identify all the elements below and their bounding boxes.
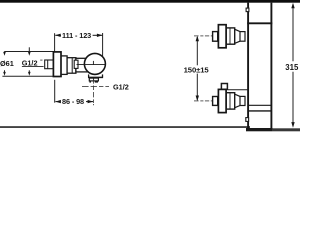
bottom union taper	[235, 94, 240, 108]
dimension 315 line	[291, 3, 294, 128]
dim Ø61 arrow bottom-left	[3, 72, 6, 76]
top knob tab	[246, 8, 249, 12]
outlet vertical centerline	[93, 80, 95, 105]
outlet horizontal centerline	[82, 86, 109, 88]
outlet nut lower marks	[89, 81, 91, 83]
svg-text:315: 315	[285, 63, 299, 72]
connector division line	[71, 58, 73, 73]
svg-text:86 - 98: 86 - 98	[62, 97, 84, 106]
body/knob mid line	[77, 64, 106, 66]
bottom union stub box	[221, 84, 227, 90]
knob division top	[247, 22, 272, 24]
dimension line 86-98 with arrows	[55, 100, 93, 103]
dim Ø61 stub above	[28, 47, 30, 52]
top union body division	[229, 28, 231, 44]
top union escutcheon	[218, 25, 226, 48]
svg-text:111 - 123: 111 - 123	[62, 31, 91, 40]
dim Ø61 arrow bottom-mid	[28, 72, 31, 76]
dim Ø61 stub bottom-left	[4, 70, 6, 72]
leader line bottom (escutcheon bottom edge)	[2, 75, 53, 77]
bottom frame line	[0, 126, 250, 128]
top union nut	[213, 32, 218, 42]
knob center tick	[92, 61, 94, 65]
bottom union cylinder	[240, 96, 245, 105]
outlet collar left edge	[88, 74, 90, 77]
leader line top (escutcheon top edge)	[4, 51, 54, 53]
bottom union escutcheon	[218, 89, 226, 112]
label G1/2 underline	[22, 66, 44, 68]
bar bottom cap fade right	[273, 128, 300, 131]
svg-text:Ø61: Ø61	[0, 59, 14, 68]
dim Ø61 arrow top-mid	[28, 52, 31, 56]
svg-text:G1/2: G1/2	[113, 82, 129, 91]
dimension 86-98 extension line	[54, 80, 56, 103]
dimension line 111-123 with arrows	[55, 34, 102, 37]
bottom union body	[226, 93, 234, 109]
bar left edge	[247, 3, 249, 129]
bottom union body division	[229, 93, 231, 109]
connector step 1	[61, 56, 67, 75]
bottom union stub line	[227, 89, 248, 91]
bar right edge	[270, 3, 272, 129]
inlet pipe	[45, 60, 54, 69]
outlet nut split	[93, 78, 95, 81]
knob division bottom 2	[249, 110, 271, 112]
top union cylinder	[240, 32, 245, 42]
temperature stop button	[74, 60, 78, 68]
dimension 111-123 extension line left	[54, 33, 56, 51]
outlet collar right edge	[102, 74, 104, 77]
bar bottom cap	[246, 128, 273, 131]
dimension 150±15 line	[196, 36, 199, 101]
dim Ø61 stub bottom-mid	[28, 70, 30, 72]
outlet collar bottom	[88, 76, 103, 78]
svg-text:150±15: 150±15	[184, 65, 210, 74]
inlet pipe thread line	[47, 60, 49, 69]
top union taper	[235, 29, 240, 43]
top union centerline	[194, 35, 212, 37]
top frame border	[0, 0, 300, 3]
bottom union nut	[213, 97, 218, 106]
dim Ø61 arrow top-left	[3, 52, 6, 56]
valve body	[76, 58, 89, 72]
knob division bottom 1	[249, 104, 271, 106]
connector step 2	[67, 58, 76, 73]
bottom union centerline	[194, 100, 212, 102]
bottom knob tab	[246, 118, 249, 122]
outlet nut	[89, 78, 98, 81]
wall escutcheon (side)	[53, 52, 61, 77]
top union body	[226, 28, 234, 44]
dimension 111-123 extension line right	[102, 33, 104, 56]
knob circle	[84, 53, 105, 74]
inlet pipe thread dash	[40, 59, 42, 61]
